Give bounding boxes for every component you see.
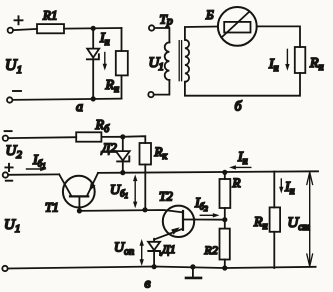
transformer Tr primary winding [165, 42, 170, 80]
svg-text:Iн: Iн [268, 57, 279, 74]
transformer Tr secondary winding [185, 40, 189, 82]
resistor R_n (circuit b) [295, 47, 306, 73]
svg-text:R2: R2 [204, 243, 218, 257]
svg-text:Iн: Iн [99, 31, 110, 48]
bottom rail [8, 267, 316, 269]
wire node to R_K corner [123, 136, 146, 143]
svg-text:Д1: Д1 [161, 242, 176, 256]
junction D2 bottom [120, 170, 125, 175]
wire barretter to R_n [257, 26, 300, 47]
wire node to R_n top [121, 28, 123, 51]
barretter inner resistor [224, 22, 250, 33]
wire node down to zener [92, 28, 94, 48]
resistor R1 [37, 24, 64, 33]
svg-text:Rн: Rн [253, 215, 268, 232]
svg-text:U1: U1 [5, 57, 22, 76]
barretter B (circle) [218, 7, 257, 46]
resistor R_K [140, 143, 152, 165]
node A (junction top of zener) [91, 26, 96, 31]
svg-text:Uст: Uст [288, 215, 311, 233]
current arrow I_n down [104, 53, 106, 67]
wire + terminal to R1 [13, 29, 37, 30]
base wire T1 to T2 collector [79, 210, 183, 212]
wire top to R_n (circuit v) [273, 172, 275, 208]
svg-text:Т1: Т1 [45, 200, 59, 215]
transistor T2 [163, 206, 194, 237]
resistor R_n (circuit v) [270, 207, 281, 231]
zener diode D1 [148, 239, 160, 250]
resistor R [220, 179, 231, 208]
ground symbol [186, 277, 201, 280]
wire primary bottom to terminal [154, 80, 170, 95]
transformer core [179, 41, 181, 81]
terminal plus (input +) [8, 28, 13, 33]
svg-text:Iб2: Iб2 [194, 196, 208, 213]
barretter diagonal stroke [222, 12, 250, 38]
junction bottom of zener [91, 96, 96, 101]
wire R_n bottom / bottom wire circuit b [185, 73, 300, 96]
junction divider top [222, 170, 227, 175]
junction R2 bottom [222, 265, 227, 270]
wire R2 to rail [224, 260, 226, 269]
svg-text:U2: U2 [6, 143, 23, 161]
svg-text:Iб1: Iб1 [32, 153, 46, 170]
wire terminal2 to T1 collector [8, 173, 59, 175]
voltage arrow U_op (double) [141, 243, 143, 262]
wire R_n bottom (circuit v) [273, 232, 275, 268]
wire R to R2 [224, 208, 226, 229]
wire node to R [224, 172, 226, 179]
terminal top (circuit b) [149, 25, 154, 30]
wire R_K down to base node [144, 165, 146, 210]
wire R_n bottom [121, 75, 123, 98]
svg-text:Т2: Т2 [159, 189, 173, 204]
zener diode D2 [122, 137, 124, 151]
junction ground [190, 264, 195, 269]
transistor T1 [63, 176, 95, 208]
resistor R_n (circuit a) [116, 51, 128, 75]
junction T1 base [77, 208, 82, 213]
svg-text:U1: U1 [149, 55, 164, 73]
resistor R2 [220, 229, 230, 260]
zener diode (circuit a) [87, 49, 99, 58]
terminal 1 minus (U2 top) [3, 136, 8, 141]
resistor R_B [76, 132, 101, 141]
wire R_B to node D2 [101, 136, 122, 138]
terminal 3 (bottom left) [2, 266, 7, 271]
svg-text:Rб: Rб [95, 118, 111, 135]
svg-text:Тр: Тр [160, 12, 173, 28]
top wire to R_B [8, 136, 76, 139]
svg-text:R1: R1 [42, 8, 57, 23]
terminal bottom (circuit b) [148, 92, 153, 97]
current arrow I_b2 [200, 214, 214, 216]
voltage arrow U_b1 (double) [134, 178, 136, 204]
junction R_K / base wire [142, 207, 147, 212]
svg-text:U1: U1 [4, 217, 20, 235]
svg-text:Rн: Rн [105, 78, 120, 95]
wire to transformer primary [155, 28, 170, 42]
junction D1 bottom [152, 264, 157, 269]
ground stub [192, 267, 194, 277]
svg-text:б: б [235, 100, 243, 115]
svg-text:а: а [76, 100, 83, 115]
svg-text:Iн: Iн [237, 150, 248, 167]
svg-text:Uб1: Uб1 [110, 183, 128, 200]
emitter output wire (long top wire of v) [98, 171, 318, 173]
current arrow I_b1 [27, 168, 43, 170]
voltage arrow U_st (double) [309, 172, 311, 266]
svg-text:Rн: Rн [309, 56, 324, 73]
wire T2 base to divider node [195, 219, 225, 221]
junction divider mid [222, 217, 227, 222]
wire R1 to node [64, 27, 122, 30]
terminal 2 plus [3, 172, 8, 177]
svg-text:в: в [145, 277, 151, 292]
svg-text:Rк: Rк [154, 144, 168, 162]
node top of D2 [120, 134, 125, 139]
svg-text:Iн: Iн [284, 180, 295, 197]
svg-text:Б: Б [205, 7, 214, 22]
wire secondary top to barretter [185, 27, 218, 40]
terminal minus (circuit a) [7, 97, 12, 102]
bottom wire circuit a [12, 99, 121, 100]
svg-text:Д2: Д2 [100, 140, 117, 155]
svg-text:Uоп: Uоп [114, 241, 134, 258]
svg-text:R: R [232, 175, 241, 190]
current arrow I_n pointing left [235, 166, 251, 168]
